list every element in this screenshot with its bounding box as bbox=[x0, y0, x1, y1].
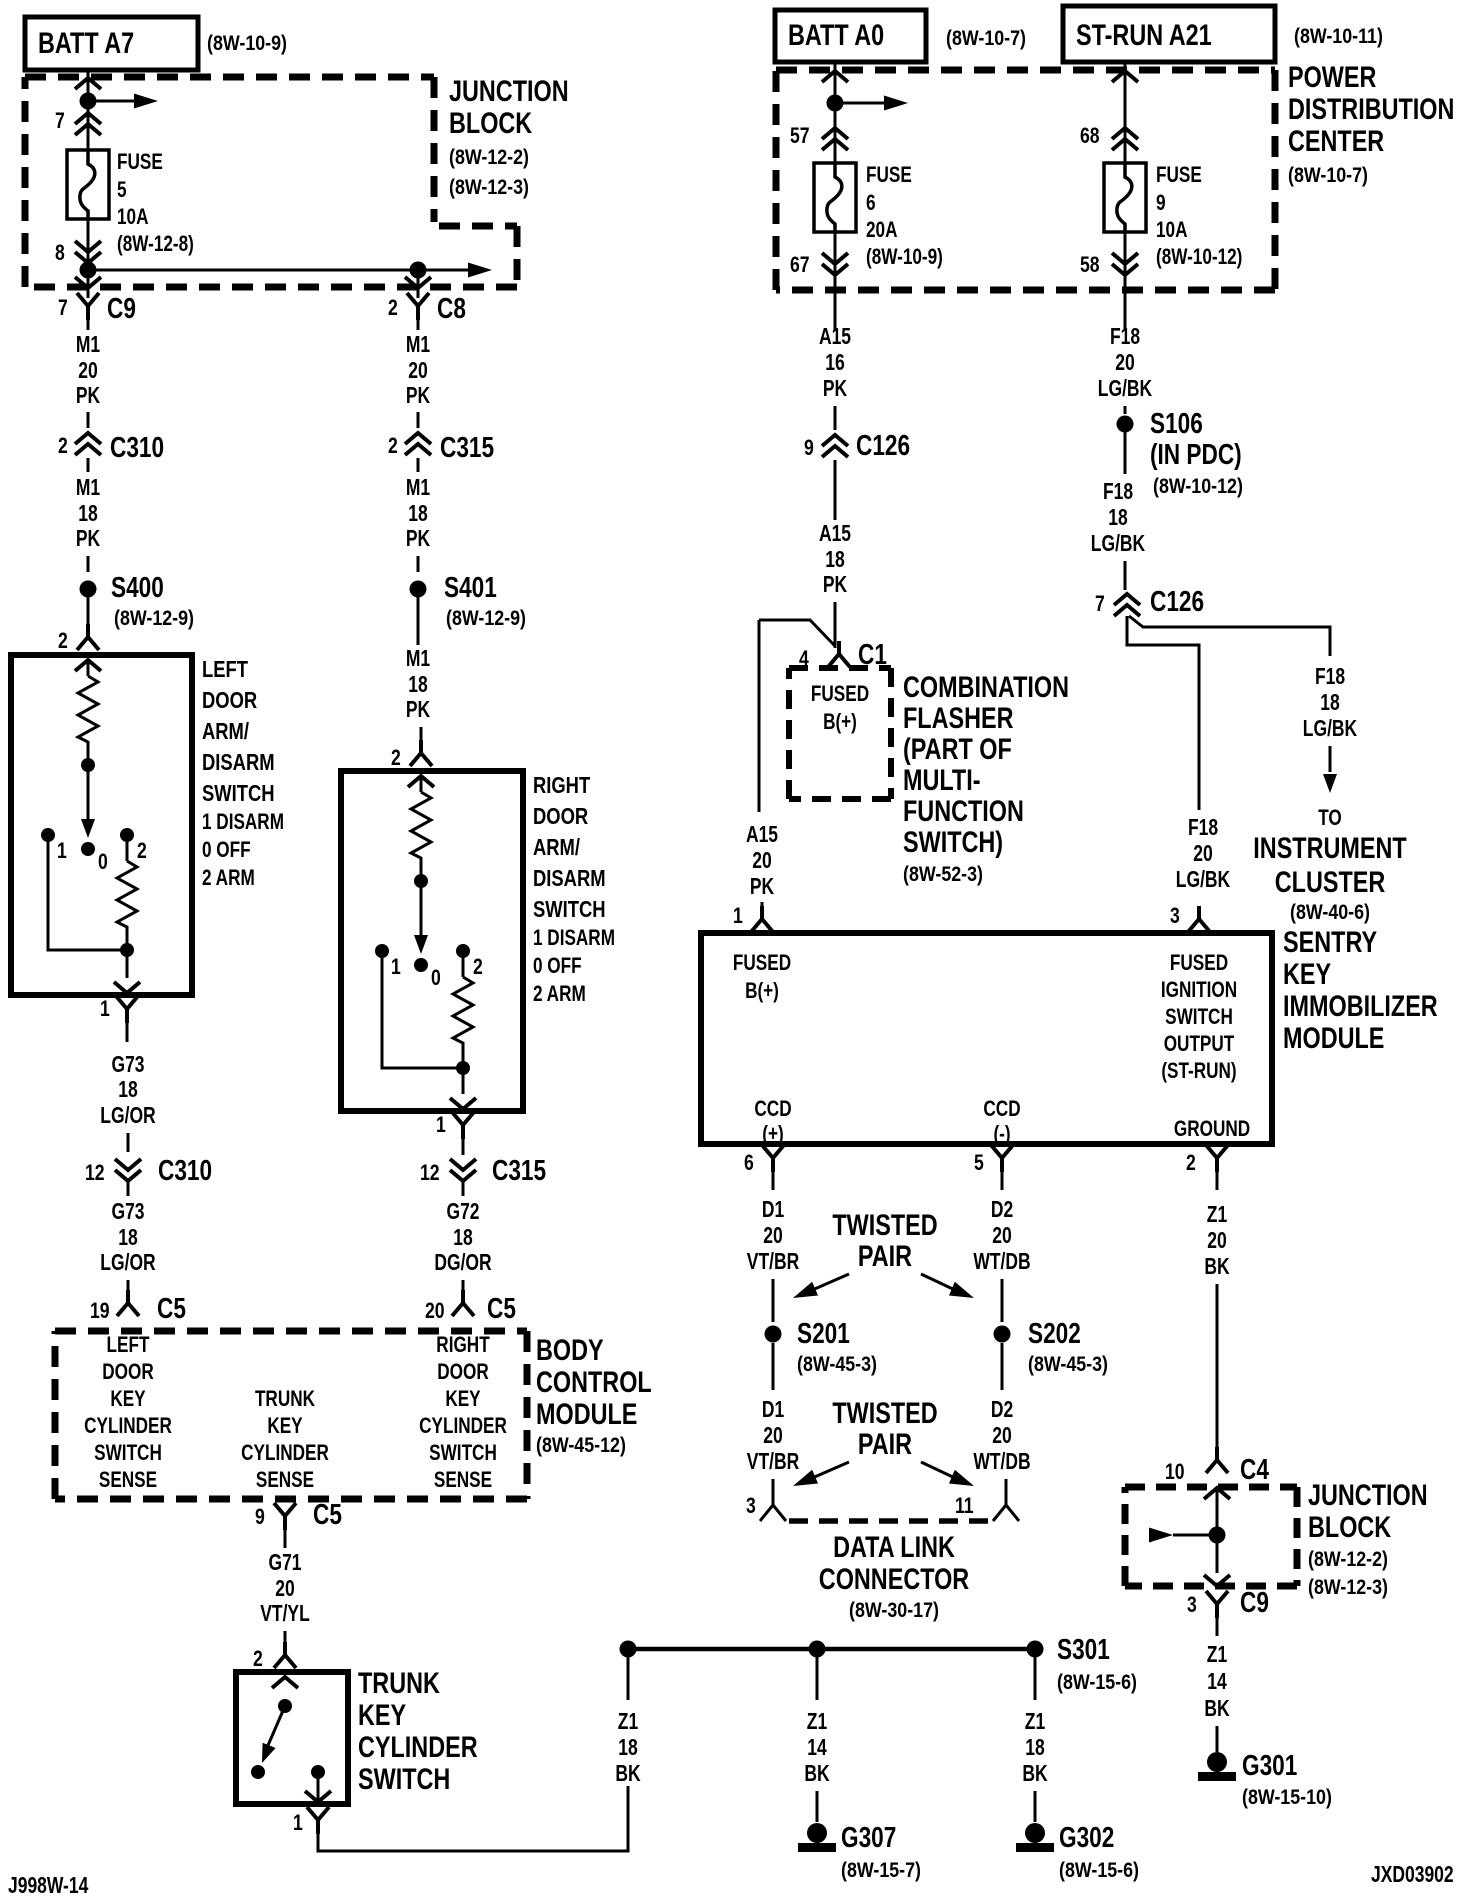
svg-text:BLOCK: BLOCK bbox=[449, 107, 532, 140]
svg-text:DOOR: DOOR bbox=[102, 1359, 154, 1384]
svg-text:7: 7 bbox=[55, 108, 65, 133]
junction block 2 node with feed arrow bbox=[1149, 1527, 1226, 1544]
resistor lower left switch bbox=[117, 861, 137, 931]
svg-text:20: 20 bbox=[763, 1422, 783, 1448]
trunk switch contact right bbox=[311, 1765, 325, 1779]
wire Z1 14 BK to G307 bbox=[804, 1649, 830, 1822]
BCM left pin label bbox=[84, 1332, 172, 1492]
svg-text:A15: A15 bbox=[746, 821, 778, 847]
right switch title bbox=[533, 772, 615, 1006]
svg-text:CYLINDER: CYLINDER bbox=[241, 1440, 329, 1465]
twisted pair arrows upper bbox=[790, 1274, 977, 1305]
svg-text:D1: D1 bbox=[762, 1396, 784, 1422]
left switch title bbox=[202, 656, 284, 890]
svg-text:FUSED: FUSED bbox=[1170, 950, 1228, 975]
svg-text:2: 2 bbox=[391, 745, 401, 770]
svg-text:DISARM: DISARM bbox=[533, 865, 606, 891]
node with branch arrow (BATT A0) bbox=[827, 95, 909, 112]
combination flasher pin label bbox=[811, 681, 869, 734]
svg-text:C5: C5 bbox=[157, 1293, 186, 1325]
svg-text:18: 18 bbox=[118, 1224, 138, 1250]
svg-text:DOOR: DOOR bbox=[437, 1359, 489, 1384]
chevron crossing block bottom at C8 bbox=[405, 277, 431, 288]
svg-text:KEY: KEY bbox=[1283, 958, 1331, 991]
contact 0 left switch bbox=[81, 842, 108, 874]
svg-text:C315: C315 bbox=[492, 1155, 546, 1187]
svg-text:ST-RUN A21: ST-RUN A21 bbox=[1076, 19, 1212, 52]
svg-text:LEFT: LEFT bbox=[202, 656, 248, 682]
svg-text:RIGHT: RIGHT bbox=[436, 1332, 490, 1357]
svg-text:PK: PK bbox=[76, 525, 101, 551]
wire Z1 14 BK right bbox=[1204, 1641, 1230, 1752]
svg-text:S201: S201 bbox=[797, 1318, 850, 1350]
BCM trunk pin label bbox=[241, 1386, 329, 1492]
wire below S401 bbox=[417, 597, 420, 645]
svg-text:F18: F18 bbox=[1110, 323, 1140, 349]
svg-text:TWISTED: TWISTED bbox=[832, 1209, 937, 1242]
svg-text:2: 2 bbox=[58, 628, 68, 653]
svg-text:JUNCTION: JUNCTION bbox=[449, 75, 569, 108]
svg-text:INSTRUMENT: INSTRUMENT bbox=[1253, 832, 1406, 865]
svg-text:(8W-15-7): (8W-15-7) bbox=[841, 1859, 921, 1882]
wire below S400 bbox=[87, 597, 90, 630]
wire BATT A0 feed bbox=[834, 62, 837, 163]
trunk key cylinder switch box bbox=[236, 1672, 348, 1804]
svg-text:BODY: BODY bbox=[536, 1334, 604, 1367]
wire F18 20 LG/BK bbox=[1098, 323, 1153, 414]
svg-text:G73: G73 bbox=[112, 1051, 145, 1077]
DLC title bbox=[819, 1531, 970, 1622]
SKIM title bbox=[1283, 926, 1438, 1055]
svg-text:LG/OR: LG/OR bbox=[100, 1249, 156, 1275]
svg-text:G307: G307 bbox=[841, 1822, 896, 1854]
svg-text:WT/DB: WT/DB bbox=[973, 1448, 1030, 1474]
svg-text:SENSE: SENSE bbox=[256, 1467, 314, 1492]
svg-text:C126: C126 bbox=[856, 430, 910, 462]
trunk switch title bbox=[358, 1667, 478, 1796]
svg-text:(PART OF: (PART OF bbox=[903, 733, 1012, 766]
svg-text:18: 18 bbox=[118, 1076, 138, 1102]
wire below fuse 5 bbox=[87, 218, 90, 270]
svg-text:SENTRY: SENTRY bbox=[1283, 926, 1377, 959]
wire D1 20 VT/BR upper bbox=[747, 1196, 800, 1322]
svg-text:PK: PK bbox=[823, 571, 848, 597]
svg-text:9: 9 bbox=[1156, 190, 1166, 215]
svg-text:12: 12 bbox=[85, 1160, 105, 1185]
svg-text:SENSE: SENSE bbox=[434, 1467, 492, 1492]
chevron crossing PDC top right bbox=[1112, 71, 1138, 82]
wire M1 18 PK right bbox=[406, 474, 431, 572]
svg-text:CYLINDER: CYLINDER bbox=[358, 1731, 478, 1764]
svg-text:8: 8 bbox=[55, 240, 65, 265]
fuse F5 bbox=[67, 150, 109, 219]
wire Z1 18 BK trunk branch bbox=[615, 1649, 641, 1786]
BCM title bbox=[536, 1334, 652, 1457]
svg-text:9: 9 bbox=[255, 1504, 265, 1529]
svg-text:MODULE: MODULE bbox=[1283, 1022, 1384, 1055]
svg-text:5: 5 bbox=[974, 1150, 984, 1175]
wire from contact 2 to resistor bbox=[126, 835, 129, 861]
svg-text:2: 2 bbox=[388, 295, 398, 320]
chevron out of junction block 2 bbox=[1204, 1575, 1230, 1586]
svg-text:10: 10 bbox=[1165, 1459, 1185, 1484]
wire M1 18 PK below S401 bbox=[406, 645, 431, 745]
wire down from C126 to SKIM pin 3 bbox=[1127, 616, 1199, 810]
wire BATT A7 feed bbox=[87, 70, 90, 150]
wire D2 20 WT/DB lower bbox=[973, 1343, 1030, 1505]
svg-text:10A: 10A bbox=[1156, 217, 1188, 242]
svg-text:18: 18 bbox=[408, 671, 428, 697]
combination flasher title bbox=[903, 671, 1069, 886]
svg-text:2 ARM: 2 ARM bbox=[533, 981, 586, 1006]
svg-text:M1: M1 bbox=[76, 474, 100, 500]
svg-text:C8: C8 bbox=[437, 293, 466, 325]
svg-text:14: 14 bbox=[1207, 1668, 1227, 1694]
splice S202 bbox=[994, 1318, 1109, 1376]
svg-text:LEFT: LEFT bbox=[107, 1332, 150, 1357]
wire from contact 1 down and right (right switch) bbox=[382, 951, 463, 1068]
svg-text:CCD: CCD bbox=[983, 1096, 1020, 1121]
junction node lower right switch bbox=[456, 1061, 470, 1075]
svg-text:TO: TO bbox=[1318, 805, 1342, 830]
svg-text:CENTER: CENTER bbox=[1288, 125, 1384, 158]
svg-text:0: 0 bbox=[431, 965, 441, 990]
svg-text:G301: G301 bbox=[1242, 1750, 1297, 1782]
svg-text:C4: C4 bbox=[1240, 1454, 1269, 1486]
svg-text:C126: C126 bbox=[1150, 586, 1204, 618]
svg-text:DATA LINK: DATA LINK bbox=[833, 1531, 955, 1564]
to instrument cluster label bbox=[1253, 805, 1406, 924]
connector pin 11 DLC bbox=[955, 1493, 1019, 1521]
svg-text:2: 2 bbox=[137, 838, 147, 863]
svg-text:G73: G73 bbox=[112, 1198, 145, 1224]
svg-text:C315: C315 bbox=[440, 432, 494, 464]
svg-text:(8W-40-6): (8W-40-6) bbox=[1290, 901, 1370, 924]
svg-text:18: 18 bbox=[1320, 689, 1340, 715]
svg-text:GROUND: GROUND bbox=[1174, 1116, 1250, 1141]
wire contact 2 to resistor (right switch) bbox=[462, 951, 465, 977]
wiper pivot node left switch bbox=[81, 758, 95, 772]
splice S301 bbox=[1027, 1634, 1138, 1694]
wire below fuse 9 bbox=[1124, 231, 1127, 330]
fuse block ST-RUN A21 bbox=[1063, 6, 1275, 62]
fuse block BATT A7 bbox=[25, 17, 198, 70]
wire to resistor right bbox=[420, 776, 423, 792]
connector pin 2 into left switch bbox=[58, 624, 99, 653]
svg-text:20A: 20A bbox=[866, 217, 898, 242]
node trunk branch bbox=[620, 1641, 637, 1658]
trunk switch pivot contact bbox=[278, 1699, 292, 1713]
svg-text:CLUSTER: CLUSTER bbox=[1275, 866, 1386, 899]
svg-text:DISTRIBUTION: DISTRIBUTION bbox=[1288, 93, 1454, 126]
svg-text:J998W-14: J998W-14 bbox=[8, 1872, 88, 1898]
svg-text:58: 58 bbox=[1080, 252, 1100, 277]
resistor upper left switch bbox=[78, 676, 98, 746]
wiper arm with arrowhead right bbox=[414, 881, 428, 954]
svg-text:ARM/: ARM/ bbox=[533, 834, 580, 860]
svg-text:(8W-15-6): (8W-15-6) bbox=[1057, 1671, 1137, 1694]
connector C310 pin 2 (in-line) bbox=[58, 432, 164, 472]
wire A15 18 PK bbox=[819, 520, 851, 648]
svg-text:SWITCH: SWITCH bbox=[358, 1763, 450, 1796]
trunk switch contact left bbox=[251, 1765, 265, 1779]
svg-text:(IN PDC): (IN PDC) bbox=[1150, 439, 1242, 471]
svg-text:1: 1 bbox=[436, 1112, 446, 1137]
svg-text:C310: C310 bbox=[110, 432, 164, 464]
wire Z1 20 BK bbox=[1204, 1201, 1230, 1460]
junction block 1 dashed outline bbox=[25, 77, 517, 287]
wire Z1 18 BK to G302 bbox=[1022, 1649, 1048, 1822]
svg-text:20: 20 bbox=[1207, 1227, 1227, 1253]
node with branch arrow top left bbox=[80, 93, 159, 110]
svg-text:(8W-10-7): (8W-10-7) bbox=[946, 27, 1026, 50]
svg-text:RIGHT: RIGHT bbox=[533, 772, 590, 798]
svg-text:6: 6 bbox=[866, 190, 876, 215]
svg-text:BK: BK bbox=[615, 1760, 641, 1786]
svg-text:5: 5 bbox=[117, 177, 127, 202]
wire from contact 1 down and right bbox=[48, 835, 127, 950]
fuse 5 labels bbox=[117, 149, 194, 256]
svg-text:C5: C5 bbox=[487, 1293, 516, 1325]
svg-text:12: 12 bbox=[420, 1160, 440, 1185]
svg-text:Z1: Z1 bbox=[618, 1708, 639, 1734]
node at fuse 5 output bbox=[80, 262, 97, 279]
svg-text:Z1: Z1 bbox=[1207, 1641, 1228, 1667]
svg-text:SWITCH: SWITCH bbox=[202, 780, 275, 806]
svg-text:(8W-52-3): (8W-52-3) bbox=[903, 863, 983, 886]
svg-text:F18: F18 bbox=[1315, 663, 1345, 689]
svg-text:SWITCH: SWITCH bbox=[1165, 1004, 1233, 1029]
trunk switch blade bbox=[256, 1706, 285, 1766]
svg-text:(8W-12-2): (8W-12-2) bbox=[449, 146, 529, 169]
connector chevrons below node (57) bbox=[822, 128, 848, 150]
wire down from C8 node bbox=[417, 270, 420, 298]
ground G301 bbox=[1198, 1750, 1332, 1809]
svg-text:M1: M1 bbox=[406, 331, 430, 357]
svg-text:1: 1 bbox=[391, 954, 401, 979]
svg-text:KEY: KEY bbox=[358, 1699, 406, 1732]
wire branch right to instrument cluster bbox=[1129, 616, 1330, 656]
svg-text:(8W-10-11): (8W-10-11) bbox=[1294, 25, 1383, 48]
splice S201 bbox=[765, 1318, 878, 1376]
wire through junction block 2 bbox=[1216, 1487, 1219, 1573]
svg-text:(-): (-) bbox=[993, 1121, 1010, 1146]
twisted pair label lower bbox=[832, 1397, 937, 1461]
svg-text:19: 19 bbox=[90, 1298, 110, 1323]
chevron crossing PDC top left bbox=[822, 71, 848, 82]
svg-text:CYLINDER: CYLINDER bbox=[419, 1413, 507, 1438]
node above C8 bbox=[410, 262, 427, 279]
svg-text:(8W-15-10): (8W-15-10) bbox=[1242, 1786, 1332, 1809]
svg-text:C9: C9 bbox=[107, 293, 136, 325]
junction block 1 label bbox=[449, 75, 569, 199]
wire down to C9 bbox=[87, 270, 90, 298]
chevron into junction block 2 bbox=[1204, 1488, 1230, 1499]
svg-text:LG/OR: LG/OR bbox=[100, 1102, 156, 1128]
svg-text:C5: C5 bbox=[313, 1499, 342, 1531]
connector pin 2 into right switch bbox=[391, 740, 432, 770]
svg-text:14: 14 bbox=[807, 1734, 827, 1760]
right door arm/disarm switch box bbox=[341, 771, 523, 1111]
svg-text:(8W-15-6): (8W-15-6) bbox=[1059, 1859, 1139, 1882]
svg-text:COMBINATION: COMBINATION bbox=[903, 671, 1069, 704]
svg-text:BK: BK bbox=[804, 1760, 830, 1786]
fuse 9 labels bbox=[1156, 162, 1242, 269]
svg-text:SENSE: SENSE bbox=[99, 1467, 157, 1492]
svg-text:C310: C310 bbox=[158, 1155, 212, 1187]
wire below fuse 6 bbox=[834, 231, 837, 330]
svg-text:(8W-12-3): (8W-12-3) bbox=[449, 176, 529, 199]
svg-text:18: 18 bbox=[825, 546, 845, 572]
svg-text:CONTROL: CONTROL bbox=[536, 1366, 652, 1399]
connector chevrons below node bbox=[75, 113, 101, 135]
branch wire to combination flasher bbox=[759, 620, 835, 646]
contact 0 right switch bbox=[414, 958, 441, 990]
arrow out right of junction block bbox=[418, 263, 492, 278]
chevron into trunk switch bbox=[272, 1677, 298, 1688]
wire M1 18 PK left bbox=[76, 474, 101, 572]
svg-text:TRUNK: TRUNK bbox=[255, 1386, 315, 1411]
svg-text:S400: S400 bbox=[111, 572, 164, 604]
svg-text:1: 1 bbox=[293, 1810, 303, 1835]
svg-text:0 OFF: 0 OFF bbox=[533, 953, 582, 978]
BCM right pin label bbox=[419, 1332, 507, 1492]
twisted pair arrows lower bbox=[790, 1462, 977, 1493]
connector C1 pin 4 bbox=[799, 639, 887, 671]
svg-text:0: 0 bbox=[98, 849, 108, 874]
svg-text:BATT A0: BATT A0 bbox=[788, 19, 884, 52]
svg-text:18: 18 bbox=[1025, 1734, 1045, 1760]
svg-text:3: 3 bbox=[746, 1493, 756, 1518]
svg-text:PAIR: PAIR bbox=[858, 1428, 912, 1461]
svg-text:LG/BK: LG/BK bbox=[1098, 375, 1153, 401]
svg-text:IMMOBILIZER: IMMOBILIZER bbox=[1283, 990, 1438, 1023]
svg-text:PAIR: PAIR bbox=[858, 1240, 912, 1273]
chevrons out of fuse 5 bbox=[75, 241, 101, 263]
right door chain: wire M1 20 PK bbox=[406, 320, 431, 428]
svg-text:KEY: KEY bbox=[267, 1413, 303, 1438]
twisted pair label upper bbox=[832, 1209, 937, 1273]
svg-text:SWITCH: SWITCH bbox=[533, 896, 606, 922]
svg-text:1 DISARM: 1 DISARM bbox=[533, 925, 615, 950]
svg-text:LG/BK: LG/BK bbox=[1176, 866, 1231, 892]
svg-text:SWITCH: SWITCH bbox=[94, 1440, 162, 1465]
svg-text:S401: S401 bbox=[444, 572, 497, 604]
svg-text:LG/BK: LG/BK bbox=[1091, 530, 1146, 556]
svg-text:1: 1 bbox=[733, 903, 743, 928]
svg-text:S202: S202 bbox=[1028, 1318, 1081, 1350]
svg-text:(8W-10-7): (8W-10-7) bbox=[1288, 164, 1368, 187]
chevron into left switch bbox=[75, 660, 101, 671]
fuse 6 labels bbox=[866, 162, 943, 269]
wire trunk switch to ground bus bbox=[318, 1786, 628, 1851]
ground G302 bbox=[1016, 1822, 1139, 1882]
sentry key immobilizer module box bbox=[701, 933, 1272, 1144]
connector pin 2 below SKIM bbox=[1186, 1145, 1228, 1190]
svg-text:(8W-12-9): (8W-12-9) bbox=[114, 607, 194, 630]
combination flasher dashed box bbox=[789, 668, 891, 799]
svg-text:D2: D2 bbox=[991, 1196, 1013, 1222]
svg-text:(8W-45-3): (8W-45-3) bbox=[1028, 1353, 1108, 1376]
svg-text:68: 68 bbox=[1080, 123, 1100, 148]
chevron crossing block bottom at C9 bbox=[75, 277, 101, 288]
svg-text:POWER: POWER bbox=[1288, 61, 1377, 94]
wire G72 18 DG/OR bbox=[434, 1198, 492, 1296]
svg-text:G302: G302 bbox=[1059, 1822, 1114, 1854]
connector pin 1 into SKIM bbox=[733, 903, 773, 932]
junction block 2 label bbox=[1308, 1479, 1428, 1599]
svg-text:PK: PK bbox=[406, 696, 431, 722]
junction block 2 dashed outline bbox=[1125, 1487, 1297, 1586]
wire resistor to junction (right switch) bbox=[462, 1047, 465, 1094]
svg-text:7: 7 bbox=[58, 295, 68, 320]
svg-text:G72: G72 bbox=[447, 1198, 480, 1224]
wire below S106 bbox=[1124, 432, 1127, 474]
PDC label bbox=[1288, 61, 1454, 187]
contact 1 right switch bbox=[375, 944, 401, 979]
svg-text:1: 1 bbox=[57, 838, 67, 863]
svg-text:9: 9 bbox=[804, 435, 814, 460]
connector chevrons (68) bbox=[1112, 128, 1138, 150]
chevron crossing at junction block top bbox=[75, 78, 101, 89]
svg-text:TWISTED: TWISTED bbox=[832, 1397, 937, 1430]
svg-text:BLOCK: BLOCK bbox=[1308, 1511, 1391, 1544]
svg-text:FUSED: FUSED bbox=[733, 950, 791, 975]
connector C5 pin 19 bbox=[90, 1290, 186, 1325]
svg-text:7: 7 bbox=[1095, 591, 1105, 616]
svg-text:1 DISARM: 1 DISARM bbox=[202, 809, 284, 834]
svg-text:2: 2 bbox=[58, 433, 68, 458]
svg-text:(8W-10-12): (8W-10-12) bbox=[1153, 475, 1243, 498]
svg-text:20: 20 bbox=[1193, 840, 1213, 866]
svg-text:(8W-12-8): (8W-12-8) bbox=[117, 231, 194, 256]
svg-text:VT/BR: VT/BR bbox=[747, 1248, 800, 1274]
wire D1 20 VT/BR lower bbox=[747, 1343, 800, 1505]
svg-text:2: 2 bbox=[1186, 1150, 1196, 1175]
svg-text:FUSED: FUSED bbox=[811, 681, 869, 706]
connector C5 pin 20 bbox=[425, 1290, 516, 1325]
wire resistor to junction bbox=[126, 931, 129, 978]
svg-text:(8W-45-3): (8W-45-3) bbox=[797, 1353, 877, 1376]
svg-text:VT/BR: VT/BR bbox=[747, 1448, 800, 1474]
wire A15 20 PK bbox=[746, 821, 778, 906]
wire to wiper pivot right bbox=[420, 862, 423, 881]
svg-text:57: 57 bbox=[790, 123, 810, 148]
svg-text:A15: A15 bbox=[819, 520, 851, 546]
svg-text:SWITCH): SWITCH) bbox=[903, 826, 1003, 859]
connector pin 1 below right switch bbox=[436, 1112, 474, 1155]
connector pin 1 below trunk switch bbox=[293, 1807, 329, 1835]
svg-text:3: 3 bbox=[1187, 1592, 1197, 1617]
svg-text:16: 16 bbox=[825, 349, 845, 375]
svg-text:BK: BK bbox=[1022, 1760, 1048, 1786]
svg-text:(8W-45-12): (8W-45-12) bbox=[536, 1434, 626, 1457]
svg-text:20: 20 bbox=[752, 847, 772, 873]
svg-text:B(+): B(+) bbox=[823, 709, 857, 734]
wire across junction block to C8 bbox=[88, 269, 418, 272]
SKIM pin1 label bbox=[733, 950, 791, 1003]
svg-text:(8W-12-3): (8W-12-3) bbox=[1308, 1576, 1388, 1599]
svg-text:(8W-12-9): (8W-12-9) bbox=[446, 607, 526, 630]
wire ST-RUN A21 feed bbox=[1124, 62, 1127, 163]
svg-text:Z1: Z1 bbox=[1207, 1201, 1228, 1227]
svg-text:DG/OR: DG/OR bbox=[434, 1249, 492, 1275]
wire D2 20 WT/DB upper bbox=[973, 1196, 1030, 1322]
contact 2 left switch bbox=[120, 828, 147, 863]
connector C9 pin 7 bbox=[58, 293, 136, 325]
svg-text:G71: G71 bbox=[269, 1549, 302, 1575]
SKIM pin3 label bbox=[1161, 950, 1237, 1083]
